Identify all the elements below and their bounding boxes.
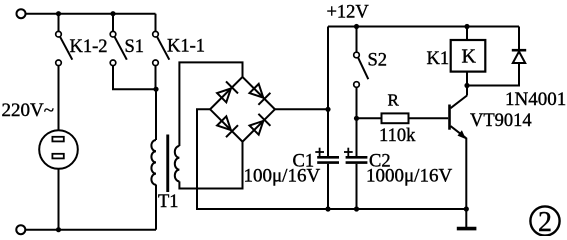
wire C1 bottom lead (327, 164, 329, 209)
svg-text:K1: K1 (427, 49, 450, 69)
svg-text:110k: 110k (379, 126, 416, 146)
node junction rail relay (464, 24, 469, 29)
diode D4 bottom-right (250, 114, 271, 135)
svg-text:K: K (462, 45, 477, 67)
wire primary bottom (155, 185, 157, 230)
node junction rail S2 (354, 24, 359, 29)
diode D1 top-left (217, 81, 238, 102)
wire K1-1 to transformer primary (155, 66, 157, 90)
wire emitter to ground rail (465, 138, 467, 209)
wire S2 to C2 node (356, 87, 358, 156)
svg-text:+12V: +12V (327, 3, 370, 23)
bridge rectifier diamond (210, 77, 275, 142)
svg-text:K1-2: K1-2 (70, 37, 108, 57)
svg-text:220V~: 220V~ (2, 100, 55, 121)
capacitor C2 (346, 157, 368, 162)
capacitor C1 (317, 157, 339, 162)
relay K1 coil box (466, 27, 468, 40)
switch S1 (110, 31, 116, 65)
wire K1-1 drop (155, 14, 157, 32)
node junction ground rail end (464, 206, 469, 211)
transformer T1 core (166, 135, 169, 193)
wire K1-2 to plug (58, 66, 60, 131)
node junction top S1 (110, 11, 115, 16)
terminal top-left (17, 9, 26, 18)
wire plug to bottom (58, 169, 60, 230)
plug 220V source (39, 130, 78, 169)
wire S1 bottom to K1-1 column (113, 66, 156, 90)
resistor R (382, 113, 409, 123)
node junction C1 ground (325, 206, 330, 211)
ground (465, 209, 467, 227)
svg-text:R: R (388, 91, 400, 110)
svg-text:K1-1: K1-1 (167, 37, 205, 57)
wire S1 drop (112, 14, 114, 32)
transformer T1 primary winding (151, 140, 156, 185)
wire to resistor (357, 117, 382, 119)
wire bridge left vertex to ground rail (197, 109, 466, 209)
wire bridge right vertex to C1 node (275, 108, 328, 110)
svg-text:1000μ/16V: 1000μ/16V (366, 165, 452, 186)
node junction R branch (354, 116, 359, 121)
wire K1-2 drop (58, 14, 60, 32)
wire resistor to base (409, 117, 449, 119)
wire secondary top to bridge top (179, 62, 242, 146)
node junction collector/diode (464, 83, 469, 88)
wire top AC line (26, 13, 156, 15)
node junction bridge/C1 (325, 107, 330, 112)
node junction C2 ground (354, 206, 359, 211)
wire secondary bottom to bridge bottom (179, 141, 242, 189)
transistor VT9014 (448, 105, 451, 130)
C2 plus sign (344, 148, 353, 157)
wire bottom AC line (25, 229, 156, 231)
svg-text:100μ/16V: 100μ/16V (244, 166, 321, 187)
svg-text:VT9014: VT9014 (470, 111, 532, 131)
switch K1-1 (153, 31, 159, 65)
switch S2 (354, 52, 360, 87)
wire +12V riser / C1 top lead (327, 27, 329, 157)
transformer T1 secondary winding (175, 146, 180, 181)
wire +12V rail (328, 26, 519, 28)
wire C2 bottom lead (356, 164, 358, 209)
figure number circle 2 (530, 206, 559, 235)
switch K1-2 (56, 31, 62, 65)
node junction bottom plug (56, 227, 61, 232)
terminal bottom-left (16, 225, 25, 234)
svg-text:2: 2 (538, 207, 552, 236)
wire S2 drop (356, 27, 358, 53)
diode D3 bottom-left (217, 116, 238, 137)
svg-text:S1: S1 (125, 37, 145, 57)
C1 plus sign (315, 148, 324, 157)
svg-text:T1: T1 (158, 192, 179, 212)
svg-text:S2: S2 (368, 51, 388, 71)
diode 1N4001 (518, 27, 520, 51)
node junction top K1-2 (56, 11, 61, 16)
node junction S1/K1-1 (153, 87, 158, 92)
svg-text:1N4001: 1N4001 (505, 89, 566, 110)
diode D2 top-right (250, 84, 271, 105)
